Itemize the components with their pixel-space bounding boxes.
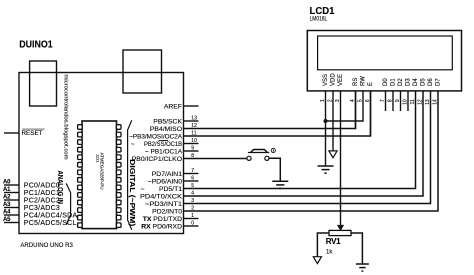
pin A0 stub [4,184,19,186]
svg-text:D7: D7 [435,78,441,86]
svg-text:PB4/MISO: PB4/MISO [150,126,182,133]
svg-text:~PD6/AIN0: ~PD6/AIN0 [148,178,182,185]
svg-text:D5: D5 [420,78,426,86]
svg-text:13: 13 [425,99,431,105]
svg-text:A1: A1 [3,187,11,193]
svg-text:10: 10 [191,138,197,144]
pin 0 label RX PD0/RXD [141,223,182,230]
svg-text:9: 9 [191,146,194,152]
svg-text:1k: 1k [326,250,333,256]
ground under RV1 [356,264,369,271]
svg-text:~: ~ [131,141,135,148]
svg-text:A3: A3 [3,202,11,208]
svg-text:ARDUINO UNO R3: ARDUINO UNO R3 [20,242,73,249]
svg-text:PB2/SS/OC1B: PB2/SS/OC1B [144,141,182,148]
lcd pin 1 VSS line [325,91,327,166]
ic U1 value text [95,153,104,190]
ground under button [272,181,288,188]
RV1 ref label [326,237,341,246]
svg-text:RV1: RV1 [326,237,341,246]
svg-text:microcontrolandos.blogspot.com: microcontrolandos.blogspot.com [62,75,68,160]
power jack box [123,50,162,93]
node label A4 [3,209,11,215]
pin A3 stub [4,207,19,209]
svg-text:13: 13 [191,116,197,122]
svg-text:~: ~ [141,186,145,193]
RV1 value 1k [326,250,333,256]
svg-text:6: 6 [191,176,194,182]
lcd pin 3 VEE line (to RV1 wiper) [340,91,342,226]
digital pin labels [129,103,182,215]
svg-text:A4: A4 [3,209,11,215]
svg-text:12: 12 [191,123,197,129]
button right terminal [265,156,269,160]
svg-text:PD5/T1: PD5/T1 [159,186,182,193]
wire pin2 to LCD D7 [184,91,439,211]
svg-text:VEE: VEE [338,74,344,86]
svg-text:D1: D1 [390,78,396,86]
pin 13 stub [184,120,199,122]
lcd pin 5 RW line [362,91,364,122]
lcd pin 8 D1 stub [392,91,394,111]
pin 7 stub [184,173,199,175]
ARDUINO UNO R3 caption [20,242,73,249]
arduino board outline [19,73,184,234]
wire VSS to RW [326,120,364,122]
pin A1 stub [4,192,19,194]
button interactive marker [271,148,275,152]
wire RV1 right to ground [351,233,362,264]
ic U1 ATMEGA328P body [82,121,117,229]
svg-text:D3: D3 [405,78,411,86]
svg-text:LCD1: LCD1 [310,6,335,17]
svg-text:AREF: AREF [164,103,182,110]
lcd LM016L value [310,17,328,23]
wire pin3 to LCD D6 [184,91,431,204]
svg-text:D4: D4 [413,78,419,86]
pin 10 stub [184,143,199,145]
svg-text:8: 8 [191,153,194,159]
svg-text:3: 3 [191,198,194,204]
power terminal RV1 left [313,257,321,264]
analog group bracket [66,183,70,224]
svg-text:DUINO1: DUINO1 [19,40,53,51]
lcd pin 2 VDD line [332,91,334,151]
svg-text:5: 5 [191,183,194,189]
svg-text:0: 0 [191,221,194,227]
svg-text:D2: D2 [398,78,404,86]
svg-text:1121: 1121 [95,154,100,163]
wire pin4 to LCD D5 [184,91,424,196]
svg-text:RS: RS [353,78,359,86]
svg-text:RW: RW [360,76,366,86]
wire pin8 to button [184,158,248,160]
svg-text:PD4/T0/XCK: PD4/T0/XCK [140,193,183,200]
blogspot vertical text [62,75,68,160]
digital pin numbers [191,116,197,227]
lcd pin 9 D2 stub [400,91,402,111]
ground under VSS [318,166,334,173]
button left terminal [247,156,251,160]
pin 9 stub [184,150,199,152]
svg-text:PC1/ADC1: PC1/ADC1 [24,190,60,197]
svg-text:E: E [368,82,374,86]
junction VSS-RW [324,119,328,123]
digital group bracket [128,120,132,230]
lcd LCD1 label [310,6,335,17]
pin A5 stub [4,222,19,224]
node label A5 [3,217,11,223]
svg-text:14: 14 [432,99,438,105]
ANALOG IN section label [56,171,63,205]
pin 6 stub [184,180,199,182]
svg-text:7: 7 [191,168,194,174]
svg-text:A0: A0 [3,179,11,185]
svg-text:LM016L: LM016L [310,17,328,23]
svg-text:~PD3/INT1: ~PD3/INT1 [145,201,182,208]
pin A4 stub [4,214,19,216]
svg-text:PD7/AIN1: PD7/AIN1 [152,171,182,178]
wire button to ground [269,158,280,181]
analog pin labels [24,182,78,227]
svg-text:2: 2 [191,206,194,212]
ic U1 right pads [116,125,121,228]
RESET pin label [22,130,43,137]
svg-text:PC5/ADC5/SCL: PC5/ADC5/SCL [24,220,77,227]
pin A2 stub [4,199,19,201]
lcd pin 4 RS line [355,91,357,129]
svg-text:DIGITAL (~PWM): DIGITAL (~PWM) [128,159,135,226]
wire pin11 to LCD E [184,91,371,136]
svg-text:VDD: VDD [330,73,336,86]
node label A1 [3,187,11,193]
potentiometer RV1 wiper arrow [338,225,344,230]
lcd pin names [323,73,442,86]
DIGITAL (~PWM) section label [128,159,135,226]
svg-text:11: 11 [410,99,416,104]
svg-text:RESET: RESET [22,130,43,137]
potentiometer RV1 body [329,230,351,235]
svg-text:PD2/INT0: PD2/INT0 [152,208,182,215]
svg-text:PC0/ADC0: PC0/ADC0 [24,182,60,189]
svg-text:A5: A5 [3,217,11,223]
lcd body [307,31,461,91]
pin 1 label TX PD1/TXD [143,216,182,223]
button actuator [248,150,269,153]
wire RV1 left to power [317,233,329,257]
svg-text:PB5/SCK: PB5/SCK [153,118,182,125]
svg-text:1: 1 [191,213,194,219]
pin 0 RX stub [184,225,199,227]
SS overline [159,139,168,142]
svg-text:D0: D0 [383,78,389,86]
arduino DUINO1 label [19,40,53,51]
svg-text:RX PD0/RXD: RX PD0/RXD [141,223,182,230]
lcd pin 6 E line [370,91,372,136]
svg-text:VSS: VSS [323,74,329,86]
svg-text:TX PD1/TXD: TX PD1/TXD [143,216,182,223]
svg-text:PC3/ADC3: PC3/ADC3 [24,205,60,212]
svg-text:12: 12 [417,99,423,105]
svg-text:D6: D6 [428,78,434,86]
svg-text:ATMEGA328P-PU: ATMEGA328P-PU [100,153,105,190]
svg-text:~PB3/MOSI/OC2A: ~PB3/MOSI/OC2A [129,133,182,140]
svg-text:4: 4 [191,191,194,197]
wire pin5 to LCD D4 [184,91,416,189]
svg-text:11: 11 [191,131,196,137]
power terminal on VDD [329,151,337,158]
node label A2 [3,194,11,200]
lcd pin numbers [320,99,439,105]
lcd pin 7 D0 stub [385,91,387,111]
lcd screen [318,36,453,70]
pin 1 TX stub [184,218,199,220]
lcd pin 10 D3 stub [407,91,409,111]
svg-text:PC2/ADC2: PC2/ADC2 [24,197,60,204]
svg-text:PB0/ICP1/CLKO: PB0/ICP1/CLKO [132,156,182,163]
RESET pin stub [4,132,19,134]
wire pin12 to LCD RS [184,91,356,129]
svg-text:A2: A2 [3,194,11,200]
ic U1 left pads [78,125,83,228]
pin AREF stub [184,105,199,107]
node label A0 [3,179,11,185]
RESET overline [22,128,44,130]
node label A3 [3,202,11,208]
usb connector box [30,61,57,106]
svg-text:PC4/ADC4/SDA: PC4/ADC4/SDA [24,212,78,219]
svg-text:~ PB1/OC1A: ~ PB1/OC1A [145,148,182,155]
